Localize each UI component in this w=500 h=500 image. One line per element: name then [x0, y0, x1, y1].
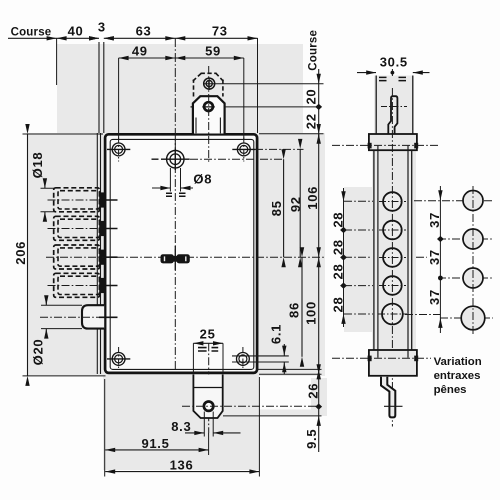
dim 206 line: [27, 134, 29, 376]
svg-text:Course: Course: [11, 27, 52, 39]
latch centerline: [40, 316, 99, 318]
screw line top-right extension: [255, 148, 304, 150]
bolt 4 tick: [99, 285, 118, 287]
dim 73 arrows: [175, 36, 185, 40]
grey strip side view top: [374, 76, 413, 135]
lock body interior: [107, 136, 256, 372]
grey collar side view top: [369, 134, 417, 150]
row extension 5: [344, 313, 373, 315]
cylinder centerline horizontal: [190, 158, 284, 160]
dim o8 extensions: [170, 168, 180, 192]
dim 30.5 line: [357, 72, 430, 74]
bolt 1 stub: [99, 192, 104, 207]
grey panel chain zone: [344, 187, 372, 332]
svg-text:Ø20: Ø20: [30, 339, 45, 366]
dim 40 line: [57, 37, 99, 39]
bolt 4 stub: [99, 278, 104, 293]
side view hole 1: [383, 192, 402, 211]
svg-text:9.5: 9.5: [304, 429, 319, 449]
svg-text:30.5: 30.5: [380, 55, 408, 70]
extension body top right: [259, 133, 324, 135]
svg-text:Ø8: Ø8: [193, 171, 212, 186]
dim 30.5 center tick: [391, 69, 393, 76]
dim 63 arrows: [104, 36, 114, 40]
follower slider: [161, 254, 174, 263]
side view strip inner lines in bottom collar: [378, 350, 408, 358]
screw top-right: [232, 138, 255, 162]
bolt 1 dashed outer: [54, 188, 100, 212]
latch extension top: [41, 304, 82, 306]
svg-text:25: 25: [200, 327, 216, 342]
svg-text:entraxes: entraxes: [434, 370, 481, 382]
lock body inner outline: [110, 139, 254, 369]
chain 28 dot 1: [340, 227, 347, 233]
svg-text:40: 40: [68, 24, 84, 39]
top tab solid: [193, 96, 225, 133]
svg-text:28: 28: [330, 264, 345, 280]
variant hole row 3 axis: [438, 277, 493, 279]
faceplate line right lower: [100, 133, 102, 374]
side view top section left edge: [375, 76, 377, 134]
bolt 2 tick: [99, 228, 118, 230]
side view top tongue: [388, 96, 397, 134]
extension tab centerline bottom: [208, 433, 210, 455]
bolt 2 stub: [99, 221, 104, 236]
side view top collar: [369, 134, 417, 150]
bolt 3 dashed inner: [58, 248, 100, 266]
dim 85 line: [283, 159, 285, 257]
chain 28 arrow bottom: [341, 314, 345, 324]
chain 28 dot 3: [340, 283, 347, 289]
grey collar side view bottom: [369, 350, 417, 376]
dim 25 line: [193, 342, 223, 344]
grey panel bottom: [103, 376, 259, 470]
svg-text:20: 20: [303, 89, 318, 105]
svg-text:59: 59: [205, 44, 221, 59]
dim Course arrow: [47, 36, 57, 40]
faceplate line right upper: [103, 42, 105, 133]
svg-text:86: 86: [287, 302, 302, 318]
dim 26 dot: [315, 404, 322, 410]
side view bottom collar: [369, 350, 417, 376]
extension screwline right: [243, 58, 245, 140]
row extension 4: [344, 285, 373, 287]
bolt 4 dashed inner: [58, 276, 100, 294]
dim 40 arrows: [57, 36, 67, 40]
dim 8.3 extensions: [204, 412, 213, 437]
bolt 2 dashed outer: [54, 216, 100, 240]
dim 92 line: [299, 149, 301, 257]
svg-text:28: 28: [330, 239, 345, 255]
side view hole 4: [383, 276, 402, 295]
dim 25 equal marks: [198, 348, 218, 351]
dim Course right arrow: [317, 74, 321, 84]
latch bolt: [82, 305, 104, 328]
svg-text:pênes: pênes: [434, 384, 467, 396]
bottom tab hole: [204, 402, 213, 411]
dim 30.5 equal marks: [379, 77, 406, 80]
dim 49 arrows: [119, 56, 129, 60]
svg-text:37: 37: [427, 212, 442, 228]
faceplate line left lower: [96, 133, 98, 374]
dim o8 line: [152, 187, 193, 189]
grey panel main top: [57, 44, 303, 133]
svg-text:Course: Course: [308, 30, 320, 71]
svg-text:85: 85: [269, 200, 284, 216]
side view strip inner left: [377, 146, 379, 350]
entraxe chain 28 line: [343, 188, 345, 327]
cylinder centerline vertical: [174, 137, 176, 371]
chain 37 arrow bottom: [438, 318, 442, 328]
extension body bottom left: [23, 375, 106, 377]
lock body outer outline: [105, 134, 257, 373]
svg-text:106: 106: [305, 186, 320, 210]
side view bottom tongue tick: [384, 405, 403, 407]
svg-text:49: 49: [132, 44, 148, 59]
extension hole1 axis: [204, 83, 324, 85]
dim 86 line: [301, 257, 303, 357]
dim 59 line: [175, 57, 244, 59]
chain 37 line: [439, 186, 441, 333]
screw bottom-right: [232, 347, 289, 370]
dim 106 line: [318, 134, 320, 257]
side view bottom collar bump right: [414, 356, 418, 362]
extension screwline left: [118, 58, 120, 140]
top tab dashed alternate: [193, 73, 224, 96]
grey patch dim26: [311, 378, 327, 410]
dim o18 extensions: [41, 188, 55, 212]
svg-text:Ø18: Ø18: [30, 152, 45, 179]
row extension 2: [344, 229, 373, 231]
variant hole 1: [463, 191, 483, 211]
svg-text:73: 73: [212, 24, 228, 39]
svg-text:37: 37: [427, 249, 442, 265]
svg-text:6.1: 6.1: [269, 324, 284, 344]
chain 37 dot 2: [438, 276, 443, 281]
side view centerline vertical: [391, 88, 393, 427]
svg-text:91.5: 91.5: [141, 436, 169, 451]
side view strip outer right: [411, 150, 413, 350]
dim 63 line: [104, 37, 176, 39]
side view top collar bump left: [368, 143, 372, 149]
extension body right top: [257, 38, 259, 133]
svg-text:8.3: 8.3: [171, 419, 191, 434]
extension body top left: [23, 133, 104, 135]
bolt 3 stub: [99, 250, 104, 265]
bolt 1 tick: [99, 199, 118, 201]
dim Course line: [8, 37, 57, 39]
latch extension bottom: [41, 328, 82, 330]
extension cylinder centerline top: [174, 38, 176, 149]
extension tab bottom: [223, 415, 322, 417]
dim o20 line: [45, 296, 47, 338]
side view bottom collar bump left: [368, 356, 372, 362]
dim 8.3 line: [185, 432, 241, 434]
top tab hole: [204, 102, 213, 111]
dim 91.5 line: [105, 449, 208, 451]
side view strip inner right: [407, 146, 409, 350]
bolt 3 tick: [99, 256, 118, 258]
side view hole 5: [382, 304, 403, 325]
top tab alternate hole: [204, 77, 215, 90]
svg-text:136: 136: [170, 458, 194, 473]
svg-text:22: 22: [303, 113, 318, 129]
svg-text:28: 28: [330, 212, 345, 228]
dim 136 line: [105, 471, 259, 473]
dim o8 equal marks: [166, 193, 186, 196]
extension bottom right: [258, 377, 260, 477]
side view hole centerlines: [378, 202, 407, 315]
top tab inner line right: [219, 118, 221, 134]
side view hole 2: [383, 221, 402, 240]
chain 37 dot 1: [437, 236, 444, 242]
grey panel main middle: [28, 133, 325, 376]
extension hole2 axis: [225, 106, 321, 108]
bolt 3 dashed outer: [54, 245, 100, 269]
svg-text:206: 206: [13, 241, 28, 265]
side view top section right edge: [412, 76, 414, 134]
main axis: [46, 256, 427, 258]
dim 59 arrows: [175, 56, 185, 60]
cylinder screw center: [152, 149, 190, 170]
side view hole 3: [383, 248, 402, 267]
bottom tab hole axis: [182, 405, 319, 407]
variant holes centerline: [472, 186, 474, 334]
variant hole 4: [461, 306, 485, 330]
dim 3 arrows outside: [89, 36, 99, 40]
variant hole 2: [463, 229, 483, 249]
screw top-left: [107, 138, 130, 162]
chain 28 dot 2: [340, 254, 347, 260]
tab centerline vertical: [208, 66, 210, 433]
side hole 5 axis extension: [405, 314, 440, 316]
chain dot 20-22: [315, 104, 322, 110]
bolt 4 centerline: [48, 285, 100, 287]
svg-text:3: 3: [98, 20, 106, 35]
svg-text:100: 100: [304, 301, 319, 325]
chain arrow 22: [317, 134, 321, 144]
dim o18 line: [44, 179, 46, 221]
bolt 2 centerline: [48, 228, 100, 230]
dim o8 arrows: [160, 186, 170, 190]
bolt 1 centerline: [48, 199, 100, 201]
variant hole row 2 axis: [438, 238, 493, 240]
extension course: [56, 38, 58, 85]
svg-text:37: 37: [427, 289, 442, 305]
side view bottom tongue: [381, 377, 395, 418]
dim Course right line: [318, 69, 320, 84]
side view bottom collar axis: [332, 357, 431, 359]
dim 26 line: [318, 374, 320, 407]
grey strip side view mid: [372, 150, 416, 350]
dim 25 extensions: [193, 343, 223, 373]
chain 20-22 line: [318, 84, 320, 141]
side view strip outer left: [373, 150, 375, 350]
latch tick: [99, 316, 118, 318]
bottom tab: [193, 375, 222, 419]
grey band dim26: [259, 410, 327, 417]
top tab inner line left: [195, 118, 197, 134]
dim 49 line: [119, 57, 176, 59]
variant hole row 4 axis: [440, 317, 493, 319]
chain 28 arrow top: [341, 191, 345, 201]
bottom tab cross line: [193, 387, 222, 389]
dim 73 line: [175, 37, 257, 39]
bolt 1 dashed inner: [58, 191, 100, 209]
svg-text:26: 26: [306, 383, 321, 399]
dim 9.5 line: [318, 407, 320, 452]
svg-text:63: 63: [136, 24, 152, 39]
extension body bottom inner: [256, 368, 322, 370]
side view top collar axis: [332, 144, 440, 146]
bolt 2 dashed inner: [58, 219, 100, 237]
svg-text:92: 92: [288, 196, 303, 212]
variant hole 3: [463, 268, 483, 288]
bolt 4 dashed outer: [54, 273, 100, 297]
dim 100 line: [318, 257, 320, 369]
extension body bottom outer: [259, 373, 322, 375]
chain 37 arrow top: [438, 190, 442, 200]
screw bottom-left: [107, 347, 130, 370]
row extension 1: [344, 200, 373, 202]
side view top tongue tick: [381, 106, 407, 108]
svg-text:Variation: Variation: [434, 356, 482, 368]
side view top collar bump right: [414, 143, 418, 149]
variant hole row 1 axis: [414, 200, 493, 202]
dim 6.1 line: [283, 344, 285, 374]
svg-text:28: 28: [330, 297, 345, 313]
faceplate line left upper: [98, 42, 100, 133]
extension bottom left: [104, 379, 106, 477]
